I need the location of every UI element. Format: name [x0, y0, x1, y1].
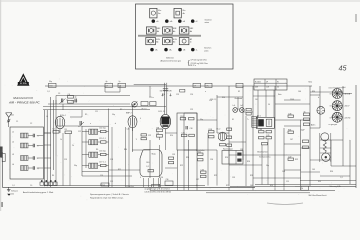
svg-text:50p: 50p: [112, 114, 115, 116]
svg-text:C11: C11: [95, 111, 98, 113]
svg-text:R27: R27: [226, 185, 229, 187]
svg-text:R9: R9: [157, 133, 159, 135]
svg-text:Umschalter: Umschalter: [196, 149, 205, 152]
svg-text:C40: C40: [146, 162, 149, 164]
svg-text:1n: 1n: [190, 41, 192, 43]
svg-text:C38: C38: [240, 149, 243, 151]
svg-text:Ab: Ab: [173, 30, 175, 33]
svg-text:C25: C25: [190, 109, 193, 111]
svg-text:30p: 30p: [49, 81, 52, 83]
svg-text:30m: 30m: [11, 115, 15, 117]
svg-text:L3: L3: [12, 154, 14, 156]
svg-text:Ao: Ao: [183, 12, 185, 15]
svg-text:C50: C50: [49, 85, 52, 87]
svg-text:40 mA: 40 mA: [345, 93, 351, 96]
svg-text:2k: 2k: [72, 145, 74, 147]
svg-text:L4: L4: [12, 164, 14, 166]
svg-text:R12: R12: [180, 116, 183, 118]
svg-text:S2: S2: [238, 91, 240, 93]
svg-text:ZF: ZF: [266, 81, 268, 83]
svg-text:C3: C3: [58, 93, 60, 95]
svg-text:4: 4: [140, 118, 141, 120]
svg-text:O,1: O,1: [47, 91, 50, 93]
svg-text:C9a: C9a: [206, 85, 209, 87]
svg-text:C21: C21: [110, 181, 113, 183]
svg-text:unten: unten: [204, 49, 209, 52]
svg-text:R4: R4: [52, 175, 54, 177]
svg-text:AZ 1: AZ 1: [257, 114, 261, 117]
svg-text:Gesehen: Gesehen: [205, 20, 212, 22]
svg-text:C19: C19: [100, 175, 103, 177]
svg-text:1k: 1k: [60, 139, 62, 141]
svg-text:R5: R5: [85, 114, 87, 116]
svg-text:R7: R7: [120, 109, 122, 111]
svg-text:C20 e: C20 e: [149, 97, 154, 99]
svg-text:C9: C9: [194, 85, 196, 87]
svg-text:a: a: [205, 91, 206, 93]
svg-text:468: 468: [255, 87, 258, 89]
svg-text:Ab: Ab: [157, 30, 159, 33]
svg-text:Ehc: Ehc: [183, 10, 186, 12]
svg-text:Anschlussbelastung gem. 1 Wa: Anschlussbelastung gem. 1 Watt: [23, 191, 54, 194]
svg-text:200 V: 200 V: [345, 106, 351, 108]
svg-text:R6: R6: [96, 149, 98, 151]
svg-text:4p: 4p: [106, 81, 108, 83]
svg-text:R10: R10: [124, 149, 127, 151]
svg-text:5: 5: [136, 139, 137, 141]
svg-text:La1: La1: [233, 105, 236, 107]
svg-text:MAGNAVOX: MAGNAVOX: [13, 96, 34, 100]
svg-text:C1: C1: [16, 121, 18, 123]
svg-text:c: c: [237, 85, 238, 87]
svg-text:2p: 2p: [119, 81, 121, 83]
svg-text:C41: C41: [255, 99, 258, 101]
svg-text:4p: 4p: [75, 97, 77, 99]
svg-text:L8 Osz: L8 Osz: [141, 109, 147, 111]
svg-text:R22: R22: [180, 165, 183, 167]
svg-text:C36: C36: [210, 159, 213, 161]
svg-text:C43: C43: [250, 185, 253, 187]
svg-text:0,3 2k 50 1W 0,1 5k 30 0,5 2W: 0,3 2k 50 1W 0,1 5k 30 0,5 2W 4k: [145, 191, 171, 193]
svg-text:EBF 2: EBF 2: [126, 113, 132, 115]
svg-text:Ab: Ab: [173, 40, 175, 43]
svg-text:ELTRA: ELTRA: [20, 82, 27, 85]
svg-text:Gleichrichter: Gleichrichter: [257, 151, 268, 154]
svg-text:b: b: [318, 97, 319, 99]
svg-text:C17 O,1: C17 O,1: [99, 162, 106, 164]
svg-text:30: 30: [277, 87, 279, 89]
svg-text:unten: unten: [205, 21, 210, 24]
svg-text:CF 500 eg 500 Ohm: CF 500 eg 500 Ohm: [191, 60, 208, 62]
svg-text:eB₉: eB₉: [170, 21, 173, 23]
svg-text:C7: C7: [106, 85, 108, 87]
svg-text:R29: R29: [270, 185, 273, 187]
svg-text:5k: 5k: [100, 185, 102, 187]
svg-text:220: 220: [11, 194, 14, 196]
svg-text:C23: C23: [176, 94, 179, 96]
svg-text:R18: R18: [209, 129, 212, 131]
svg-text:AIR - PRINCE 908 PC: AIR - PRINCE 908 PC: [8, 101, 41, 105]
svg-text:C13: C13: [64, 159, 67, 161]
svg-text:30p: 30p: [74, 165, 77, 167]
svg-text:Netz: Netz: [309, 81, 313, 84]
svg-text:C26: C26: [209, 100, 212, 102]
svg-text:C30: C30: [190, 128, 193, 130]
svg-text:C6: C6: [68, 94, 70, 96]
svg-text:L2: L2: [12, 141, 14, 143]
svg-text:C46: C46: [298, 91, 301, 93]
svg-text:C35: C35: [201, 169, 204, 171]
svg-text:45: 45: [339, 64, 348, 73]
svg-text:Gesamt: Gesamt: [235, 97, 243, 100]
svg-text:Mit Ultra-Mono-Gerät: Mit Ultra-Mono-Gerät: [309, 194, 327, 197]
svg-text:C49: C49: [312, 169, 315, 171]
svg-text:R25: R25: [214, 175, 217, 177]
svg-text:C15 O,1: C15 O,1: [99, 138, 106, 140]
svg-text:C44: C44: [259, 129, 262, 131]
svg-text:R13: R13: [162, 94, 165, 96]
svg-text:Abweichend hiervon gez: Abweichend hiervon gez: [161, 60, 182, 63]
svg-text:Voltmeter: Voltmeter: [166, 56, 174, 59]
svg-text:C12: C12: [78, 131, 81, 133]
svg-text:Ab: Ab: [156, 40, 158, 43]
svg-text:L.Dfg 8 m: L.Dfg 8 m: [126, 186, 134, 188]
svg-text:C39: C39: [232, 177, 235, 179]
svg-text:L1: L1: [12, 131, 14, 133]
svg-text:Regelwiderst empf. bei Mitt: Regelwiderst empf. bei Mittel verspr.: [90, 196, 124, 199]
svg-text:C34: C34: [160, 177, 163, 179]
svg-text:mag: mag: [102, 184, 105, 186]
svg-text:C33: C33: [172, 154, 175, 156]
svg-text:R28: R28: [250, 175, 253, 177]
svg-text:Gehäuse: Gehäuse: [11, 191, 18, 193]
svg-text:R2: R2: [53, 129, 55, 131]
svg-text:R1: R1: [45, 185, 47, 187]
svg-text:R24: R24: [225, 157, 228, 159]
svg-text:C2: C2: [30, 123, 32, 125]
svg-text:Ehc: Ehc: [158, 10, 161, 12]
svg-text:C18: C18: [110, 159, 113, 161]
svg-text:C48: C48: [282, 171, 285, 173]
svg-text:C45: C45: [266, 135, 269, 137]
svg-text:AZ1n: AZ1n: [311, 124, 315, 127]
svg-text:50p: 50p: [266, 165, 269, 167]
svg-text:R26: R26: [247, 161, 250, 163]
svg-text:C31: C31: [181, 133, 184, 135]
svg-text:cL: cL: [196, 50, 198, 52]
svg-text:C51: C51: [286, 181, 289, 183]
svg-text:R8: R8: [157, 127, 159, 129]
svg-text:eE₉: eE₉: [155, 50, 158, 52]
svg-text:R35: R35: [318, 181, 321, 183]
svg-text:L5: L5: [46, 116, 48, 118]
svg-text:R3: R3: [65, 129, 67, 131]
svg-text:b: b: [115, 123, 116, 125]
svg-text:O,1: O,1: [12, 185, 15, 187]
svg-text:C0: C0: [30, 185, 32, 187]
svg-text:6: 6: [140, 177, 141, 179]
svg-text:Eckfeld: Eckfeld: [255, 81, 261, 83]
svg-text:C37: C37: [196, 179, 199, 181]
svg-text:Skala: Skala: [152, 154, 156, 156]
svg-text:C22: C22: [148, 135, 151, 137]
svg-text:C47: C47: [288, 156, 291, 158]
svg-text:R32: R32: [295, 159, 298, 161]
svg-text:R14: R14: [170, 135, 173, 137]
svg-text:R16: R16: [222, 97, 225, 99]
svg-text:Netz: Netz: [278, 93, 282, 96]
svg-text:a1 g2 a2 k1 g1 s2 f1 f2 e1 h2: a1 g2 a2 k1 g1 s2 f1 f2 e1 h2 b1: [145, 189, 170, 191]
svg-text:ECL 11: ECL 11: [159, 111, 166, 113]
svg-text:C16 50p: C16 50p: [99, 151, 106, 153]
svg-text:eB₉: eB₉: [169, 50, 172, 52]
svg-text:a: a: [90, 123, 91, 125]
svg-text:3x: 3x: [304, 111, 306, 113]
svg-text:R34: R34: [330, 171, 333, 173]
svg-text:S1: S1: [232, 119, 234, 121]
svg-text:C24: C24: [190, 94, 193, 96]
svg-text:C46: C46: [288, 113, 291, 115]
svg-text:O,1: O,1: [146, 166, 149, 168]
svg-text:C14 50p: C14 50p: [99, 128, 106, 130]
svg-text:La2: La2: [240, 105, 243, 107]
svg-text:C47: C47: [290, 139, 293, 141]
svg-text:C36: C36: [166, 179, 169, 181]
svg-text:Spannungswerte gem. | Schal: Spannungswerte gem. | Schalt B. Chassis: [90, 193, 129, 196]
svg-text:Gesehen: Gesehen: [204, 48, 211, 50]
svg-text:eF₉: eF₉: [156, 21, 159, 23]
svg-text:50: 50: [268, 104, 270, 106]
svg-text:128: 128: [266, 87, 269, 89]
svg-text:Ab: Ab: [190, 30, 192, 33]
svg-text:R31: R31: [288, 129, 291, 131]
svg-text:220 Hz: 220 Hz: [345, 117, 351, 119]
svg-text:ca gas gez: ca gas gez: [329, 124, 338, 126]
svg-text:Germanium/Cu: Germanium/Cu: [259, 156, 271, 159]
svg-text:#30 #30 C23 1W: #30 #30 C23 1W: [160, 91, 172, 93]
svg-text:Ao: Ao: [158, 12, 160, 15]
svg-text:EL 2: EL 2: [217, 129, 221, 131]
svg-text:ECH 4: ECH 4: [60, 115, 66, 117]
svg-text:O,1: O,1: [340, 177, 343, 179]
svg-text:TW 22 a: TW 22 a: [190, 65, 196, 67]
